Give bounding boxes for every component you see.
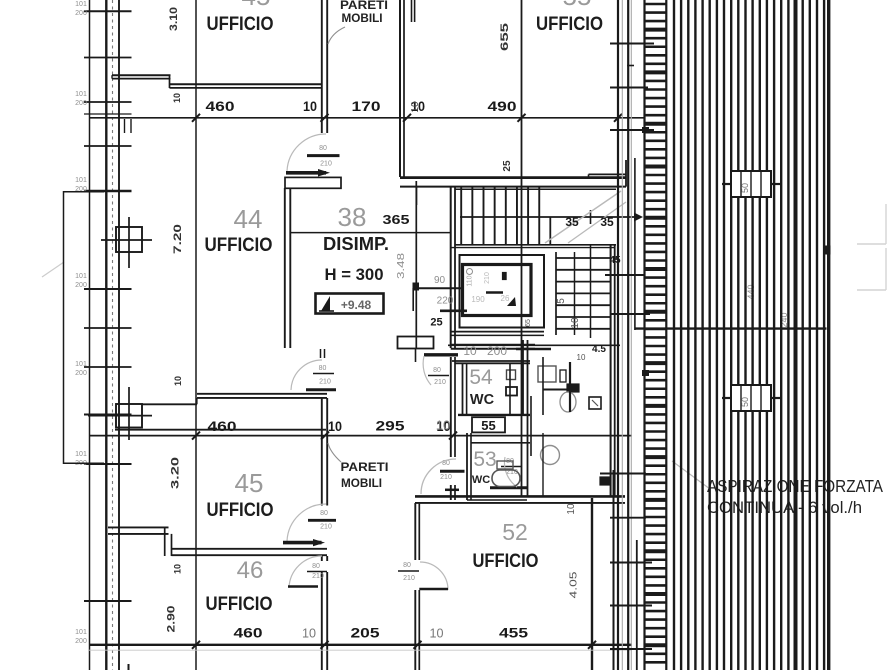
room 52 top wall bbox=[415, 496, 625, 503]
room 53 walls bbox=[467, 433, 530, 500]
door D5 leaf bbox=[288, 585, 318, 588]
svg-text:DISIMP.: DISIMP. bbox=[323, 234, 389, 254]
svg-text:UFFICIO: UFFICIO bbox=[205, 234, 273, 256]
room 53 WC bbox=[472, 474, 490, 486]
label ASPIRAZIONE FORZATA bbox=[707, 476, 883, 496]
right wall lower extra bbox=[614, 470, 637, 670]
svg-text:210: 210 bbox=[440, 474, 452, 481]
room 45b number bbox=[235, 468, 264, 498]
svg-text:35: 35 bbox=[565, 215, 579, 229]
svg-text:10: 10 bbox=[172, 93, 182, 103]
label PARETI MOBILI top bbox=[328, 0, 388, 44]
svg-text:80: 80 bbox=[403, 562, 411, 569]
svg-text:10: 10 bbox=[328, 418, 342, 434]
svg-text:365: 365 bbox=[383, 212, 410, 227]
svg-text:44: 44 bbox=[234, 204, 263, 234]
svg-text:101: 101 bbox=[75, 451, 87, 458]
room 46 label bbox=[206, 593, 273, 615]
door D1 swing arc bbox=[287, 134, 326, 171]
stair side lines bbox=[605, 275, 650, 314]
svg-text:3.10: 3.10 bbox=[168, 7, 180, 31]
door D3 arc bbox=[423, 356, 431, 385]
svg-text:10: 10 bbox=[302, 626, 316, 641]
svg-text:210: 210 bbox=[403, 575, 415, 582]
svg-text:65: 65 bbox=[525, 319, 532, 327]
elevator interior marks bbox=[467, 269, 517, 307]
svg-text:200: 200 bbox=[75, 10, 87, 17]
dim 460 top bbox=[206, 98, 235, 114]
svg-text:PARETI: PARETI bbox=[341, 460, 389, 474]
room 52 left wall bbox=[415, 503, 419, 670]
door D1 leaf bbox=[286, 169, 330, 177]
room 53 door right bbox=[501, 457, 522, 487]
door D5 labels bbox=[307, 563, 327, 580]
dim 10 mid a bbox=[328, 418, 342, 434]
svg-text:455: 455 bbox=[499, 625, 528, 641]
hatch box 50 upper bbox=[722, 171, 780, 197]
svg-text:440: 440 bbox=[746, 284, 756, 299]
svg-text:210: 210 bbox=[484, 272, 491, 284]
door D3 labels bbox=[428, 367, 449, 386]
room 55 label UFFICIO bbox=[536, 13, 603, 35]
dim 365 bbox=[383, 212, 410, 227]
label CONTINUA bbox=[707, 499, 862, 517]
right wall tick dots bbox=[643, 128, 649, 376]
column box upper bbox=[101, 217, 152, 268]
svg-text:MOBILI: MOBILI bbox=[342, 11, 383, 25]
svg-text:101: 101 bbox=[75, 177, 87, 184]
top dimension line bbox=[89, 117, 644, 119]
room 52 number bbox=[502, 519, 528, 545]
faint diagonal top-left bbox=[42, 262, 64, 277]
svg-text:295: 295 bbox=[376, 418, 405, 434]
svg-text:210: 210 bbox=[434, 379, 446, 386]
elevator dims bbox=[430, 275, 453, 329]
svg-text:54: 54 bbox=[469, 366, 493, 389]
svg-text:55: 55 bbox=[563, 0, 592, 11]
left wall dimension ticks bbox=[84, 11, 132, 601]
dim 460 mid bbox=[208, 418, 237, 434]
disimp left wall bbox=[285, 188, 291, 348]
svg-text:45: 45 bbox=[609, 255, 621, 266]
quota box +9.48 bbox=[316, 294, 384, 314]
label 7.20 bbox=[172, 224, 184, 254]
svg-text:2.90: 2.90 bbox=[166, 606, 178, 633]
svg-text:H = 300: H = 300 bbox=[325, 265, 384, 284]
room 55 number bbox=[563, 0, 592, 11]
wall 44-45 bbox=[115, 394, 327, 430]
door D4 head bbox=[308, 519, 336, 522]
corridor wall south lower bbox=[322, 556, 327, 670]
bottom dim slash ticks bbox=[192, 641, 596, 649]
svg-text:10: 10 bbox=[173, 376, 183, 386]
bath top dim bbox=[448, 344, 620, 361]
label 10 mid bbox=[173, 376, 183, 386]
svg-text:50: 50 bbox=[740, 183, 750, 193]
svg-text:4.05: 4.05 bbox=[569, 571, 580, 599]
label 3.48 bbox=[396, 252, 407, 279]
dim 10 gray bbox=[436, 418, 450, 433]
svg-text:210: 210 bbox=[320, 524, 332, 531]
bottom dimension line bbox=[89, 645, 632, 650]
room 53 fixtures bbox=[492, 446, 610, 487]
svg-text:200: 200 bbox=[75, 370, 87, 377]
label 4.05 rot bbox=[569, 571, 580, 599]
label 25 rotated room55 bbox=[502, 160, 513, 172]
column box lower bbox=[88, 387, 152, 440]
svg-text:101: 101 bbox=[75, 1, 87, 8]
dim 10 mid b bbox=[437, 418, 451, 434]
faint bracket right lower bbox=[857, 248, 886, 290]
label 10 top bbox=[172, 93, 182, 103]
hatch box 50 lower bbox=[722, 385, 780, 411]
svg-text:200: 200 bbox=[75, 100, 87, 107]
dim 10 top b bbox=[411, 98, 425, 114]
faint bracket right upper bbox=[857, 204, 886, 244]
svg-text:52: 52 bbox=[502, 519, 528, 545]
room 53 door left bbox=[421, 459, 527, 494]
disimp door D2 head bbox=[306, 388, 336, 391]
svg-text:45: 45 bbox=[242, 0, 271, 11]
door D1 labels bbox=[319, 145, 332, 168]
ladder rung column bbox=[645, 0, 667, 670]
svg-text:200: 200 bbox=[75, 282, 87, 289]
svg-text:UFFICIO: UFFICIO bbox=[473, 550, 539, 572]
svg-text:110: 110 bbox=[467, 275, 474, 286]
vertical hatch band bbox=[674, 0, 829, 670]
disimp landing wall bbox=[285, 177, 341, 188]
dim 460 bottom bbox=[234, 625, 263, 641]
svg-text:170: 170 bbox=[352, 98, 381, 114]
room 45b label bbox=[207, 499, 274, 521]
svg-text:10: 10 bbox=[570, 317, 581, 329]
door D6 labels bbox=[398, 562, 419, 582]
svg-text:460: 460 bbox=[234, 625, 263, 641]
svg-text:210: 210 bbox=[312, 573, 324, 580]
corner step below dim bbox=[125, 119, 132, 133]
door D6 arc bbox=[419, 562, 448, 590]
room 38 number bbox=[338, 202, 367, 232]
dim 490 top bbox=[488, 98, 517, 114]
svg-text:25: 25 bbox=[502, 160, 513, 172]
dim line 365 bbox=[291, 232, 451, 234]
leader to annotation bbox=[672, 461, 710, 489]
svg-text:25: 25 bbox=[430, 317, 442, 329]
corridor wall south upper bbox=[322, 398, 327, 506]
right wall main A bbox=[617, 0, 619, 670]
wall 45b-46 bbox=[108, 527, 327, 556]
svg-text:655: 655 bbox=[499, 23, 511, 51]
svg-text:3.48: 3.48 bbox=[396, 252, 407, 279]
svg-text:WC: WC bbox=[472, 474, 490, 486]
svg-text:10: 10 bbox=[430, 626, 444, 641]
wall stub x412 bbox=[412, 0, 415, 22]
svg-text:26: 26 bbox=[501, 294, 510, 303]
room 54 WC bbox=[470, 392, 495, 408]
dim 295 mid bbox=[376, 418, 405, 434]
svg-text:5: 5 bbox=[556, 298, 567, 304]
door D5 arc bbox=[289, 556, 322, 588]
svg-text:10: 10 bbox=[566, 503, 577, 515]
svg-text:80: 80 bbox=[320, 510, 328, 517]
stair left wall bbox=[451, 187, 455, 348]
top dim slash ticks bbox=[192, 114, 622, 122]
svg-text:UFFICIO: UFFICIO bbox=[207, 13, 274, 35]
stair diagonal break lines bbox=[545, 191, 626, 243]
svg-text:UFFICIO: UFFICIO bbox=[536, 13, 603, 35]
door D4 arc bbox=[287, 504, 326, 541]
elevator left stub walls bbox=[413, 288, 467, 311]
svg-text:46: 46 bbox=[237, 557, 264, 584]
stair lower flight treads bbox=[556, 245, 615, 497]
svg-text:UFFICIO: UFFICIO bbox=[206, 593, 273, 615]
room 54 fixtures bbox=[506, 362, 601, 412]
svg-text:210: 210 bbox=[320, 161, 332, 168]
svg-text:220: 220 bbox=[437, 296, 454, 307]
room 44 label UFFICIO bbox=[205, 234, 273, 256]
svg-text:10: 10 bbox=[577, 353, 586, 362]
svg-text:45: 45 bbox=[235, 468, 264, 498]
dim 170 top bbox=[352, 98, 381, 114]
boxed label 55 bbox=[472, 417, 505, 433]
dim 205 bottom bbox=[351, 625, 380, 641]
svg-text:190: 190 bbox=[471, 295, 485, 304]
right wall mid segment bbox=[634, 158, 636, 330]
stair labels 35 35 bbox=[565, 215, 614, 229]
label 3.20 bbox=[170, 457, 182, 489]
room 45 top number bbox=[242, 0, 271, 11]
room 55 south wall bbox=[400, 160, 626, 187]
label PARETI MOBILI bottom bbox=[328, 443, 389, 490]
middle dimension line bbox=[89, 435, 632, 437]
label H300 bbox=[325, 265, 384, 284]
corridor wall line x416 bbox=[413, 181, 419, 348]
grid line x521 bbox=[522, 0, 523, 496]
svg-text:10: 10 bbox=[303, 98, 317, 114]
svg-text:490: 490 bbox=[488, 98, 517, 114]
svg-text:80: 80 bbox=[433, 367, 441, 374]
svg-text:101: 101 bbox=[75, 91, 87, 98]
disimp door D2 arc bbox=[291, 360, 322, 390]
stair upper flight treads bbox=[417, 187, 617, 248]
svg-text:210: 210 bbox=[319, 379, 331, 386]
svg-text:90: 90 bbox=[434, 275, 446, 286]
corridor right wall bbox=[400, 0, 404, 177]
svg-text:UFFICIO: UFFICIO bbox=[207, 499, 274, 521]
right wall ticks bbox=[600, 44, 654, 650]
right wall faint lines bbox=[622, 0, 631, 670]
dim 455 bottom bbox=[499, 625, 528, 641]
left wall tiny level labels bbox=[75, 1, 87, 645]
right wall main B bbox=[627, 0, 629, 670]
svg-text:55: 55 bbox=[481, 418, 495, 433]
svg-text:10: 10 bbox=[436, 418, 450, 433]
svg-text:3.20: 3.20 bbox=[170, 457, 182, 489]
door D3 leaf bbox=[424, 353, 458, 356]
svg-text:80: 80 bbox=[319, 145, 327, 152]
wall stub bottom bbox=[128, 664, 130, 670]
vertical dimension line x196 bbox=[195, 0, 197, 670]
label 655 rotated bbox=[499, 23, 511, 51]
room 54 number bbox=[469, 366, 493, 389]
label 10 wall bbox=[410, 101, 421, 113]
disimp door D2 jamb bbox=[321, 349, 325, 358]
bath partitions bbox=[467, 340, 543, 500]
dim 10 bottom b bbox=[430, 626, 444, 641]
svg-text:WC: WC bbox=[470, 392, 495, 408]
wall left outer face line bbox=[89, 0, 91, 670]
dim 10 top a bbox=[303, 98, 317, 114]
svg-text:205: 205 bbox=[351, 625, 380, 641]
svg-text:10: 10 bbox=[173, 564, 183, 574]
door D4 leaf bbox=[283, 539, 325, 546]
room 45 top south wall bbox=[112, 75, 322, 88]
stair wall continues down bbox=[451, 357, 455, 500]
left balcony bracket bbox=[64, 191, 105, 464]
svg-text:35: 35 bbox=[600, 215, 614, 229]
room 52 label bbox=[473, 550, 539, 572]
room 54 walls bbox=[455, 363, 530, 415]
svg-text:101: 101 bbox=[75, 361, 87, 368]
room 52 right wall bbox=[591, 498, 593, 670]
mid dim slash ticks bbox=[192, 432, 457, 440]
door D1 head line bbox=[307, 154, 340, 157]
room 53 number bbox=[473, 448, 496, 471]
label DISIMP bbox=[323, 234, 389, 254]
svg-text:80: 80 bbox=[312, 563, 320, 570]
svg-text:7.20: 7.20 bbox=[172, 224, 184, 254]
elevator bottom walls bbox=[451, 319, 544, 349]
dim 10 bottom a bbox=[302, 626, 316, 641]
wall left exterior wall bbox=[106, 0, 119, 670]
stair walk line with arrow bbox=[460, 210, 643, 224]
room 44 number bbox=[234, 204, 263, 234]
svg-text:200: 200 bbox=[75, 638, 87, 645]
svg-text:50: 50 bbox=[740, 397, 750, 407]
svg-text:MOBILI: MOBILI bbox=[341, 476, 382, 490]
hatch labels rotated bbox=[746, 284, 789, 327]
room 46 number bbox=[237, 557, 264, 584]
pareti mobili wall top bbox=[322, 0, 327, 133]
label 2.90 bbox=[166, 606, 178, 633]
svg-text:53: 53 bbox=[473, 448, 496, 471]
svg-text:+9.48: +9.48 bbox=[341, 298, 372, 312]
elevator shaft bbox=[460, 255, 545, 328]
black tick on hatch boundary bbox=[824, 246, 830, 254]
label 10 between 45b 46 bbox=[173, 564, 183, 574]
label 3.10 bbox=[168, 7, 180, 31]
svg-text:80: 80 bbox=[319, 365, 327, 372]
svg-text:460: 460 bbox=[206, 98, 235, 114]
hatch horizontal divider bbox=[635, 327, 827, 329]
svg-text:101: 101 bbox=[75, 629, 87, 636]
elevator car bbox=[463, 265, 532, 316]
svg-text:460: 460 bbox=[208, 418, 237, 434]
disimp door D2 labels bbox=[313, 365, 334, 386]
svg-text:38: 38 bbox=[338, 202, 367, 232]
door D4 labels bbox=[320, 510, 332, 531]
room 45 top label UFFICIO bbox=[207, 13, 274, 35]
stair lower labels bbox=[556, 255, 621, 362]
label 10 rot 52 bbox=[566, 503, 577, 515]
corridor south wall stub bbox=[398, 337, 434, 363]
svg-text:101: 101 bbox=[75, 273, 87, 280]
svg-text:10: 10 bbox=[410, 101, 421, 113]
